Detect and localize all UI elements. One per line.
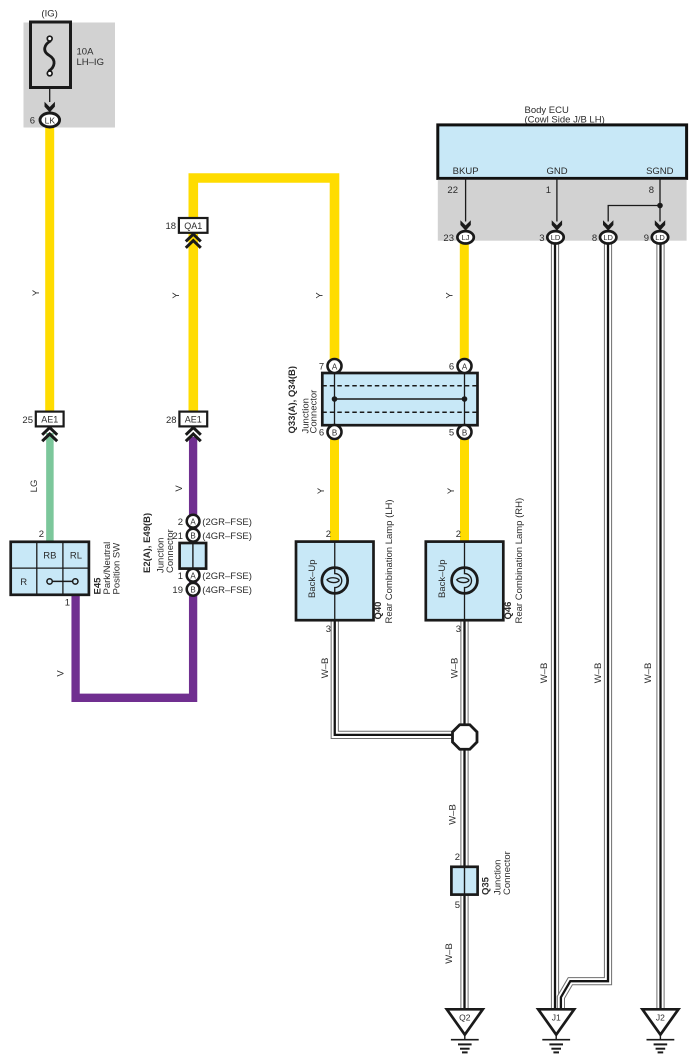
svg-text:SGND: SGND: [646, 166, 674, 177]
ground triangle Q2: [447, 1009, 483, 1034]
ground triangle J2: [642, 1009, 678, 1034]
svg-text:Connector: Connector: [502, 851, 513, 895]
switch contact symbol: [47, 579, 78, 584]
arrow down at fuse output: [45, 102, 55, 113]
svg-text:5: 5: [455, 900, 460, 911]
wire Y junction 6B to Q40 lamp: [330, 432, 339, 543]
svg-text:7: 7: [319, 362, 324, 373]
lamp Q40 Back-Up body: [296, 542, 374, 621]
label Q33(A), Q34(B) Junction Connector: [287, 366, 320, 434]
Body ECU gray connector area: [438, 180, 687, 241]
arrow down SGND branch 8: [603, 220, 613, 231]
svg-text:Q35: Q35: [481, 876, 492, 895]
wire W-B from Q46 pin3 through octagon, Q35 to ground Q2: [460, 619, 468, 1010]
svg-text:Position SW: Position SW: [112, 543, 123, 595]
svg-text:(2GR–FSE): (2GR–FSE): [202, 571, 252, 582]
pin 5 B: [458, 425, 472, 439]
svg-text:W–B: W–B: [320, 658, 331, 679]
wire Y from fuse LK to connector AE1 pin25: [45, 126, 54, 413]
bulb Q46: [452, 568, 478, 594]
svg-text:RL: RL: [70, 551, 82, 562]
wire LG from AE1 to E45 switch: [46, 433, 54, 543]
svg-text:RB: RB: [43, 551, 56, 562]
svg-text:LG: LG: [29, 480, 40, 493]
svg-text:BKUP: BKUP: [453, 166, 479, 177]
svg-text:3: 3: [326, 624, 331, 635]
svg-text:2: 2: [456, 529, 461, 540]
svg-text:10A: 10A: [77, 47, 95, 58]
svg-text:1: 1: [546, 185, 551, 196]
wire W-B from Q40 pin3 to octagon joint: [335, 619, 456, 735]
svg-text:22: 22: [447, 185, 458, 196]
svg-text:6: 6: [449, 362, 454, 373]
svg-text:2: 2: [39, 529, 44, 540]
label Q46 Rear Combination Lamp (RH): [503, 498, 525, 624]
pin 8 lead SGND with branch: [608, 178, 660, 221]
connector 25 AE1: [36, 412, 64, 427]
svg-text:23: 23: [443, 233, 454, 244]
svg-text:Rear Combination Lamp (RH): Rear Combination Lamp (RH): [514, 498, 525, 624]
svg-text:B: B: [190, 586, 195, 595]
ground symbol under J1: [542, 1035, 570, 1053]
svg-text:Q2: Q2: [459, 1012, 471, 1022]
svg-text:(2GR–FSE): (2GR–FSE): [202, 517, 252, 528]
junction connector E2(A) E49(B) pins 1A 19B: [172, 569, 252, 596]
svg-text:QA1: QA1: [184, 221, 202, 231]
connector 18 QA1: [179, 218, 208, 233]
wire from fuse to output arrow: [49, 88, 51, 103]
svg-text:LH–IG: LH–IG: [77, 57, 104, 68]
svg-text:B: B: [190, 532, 195, 541]
arrow down SGND 9: [655, 220, 665, 231]
svg-text:V: V: [174, 485, 185, 492]
ground triangle J1: [538, 1009, 574, 1034]
svg-text:Y: Y: [171, 292, 182, 299]
arrow down BKUP: [460, 220, 470, 231]
label E45 Park/Neutral Position SW: [93, 542, 123, 595]
svg-text:LD: LD: [551, 233, 561, 242]
svg-text:3: 3: [539, 233, 544, 244]
svg-text:B: B: [332, 428, 337, 437]
svg-text:6: 6: [30, 116, 35, 127]
svg-text:J2: J2: [656, 1012, 665, 1022]
W-B harness wire group: [335, 242, 661, 1010]
svg-text:LJ: LJ: [462, 233, 470, 242]
svg-text:Y: Y: [31, 289, 42, 296]
junction connector E2(A) E49(B) pins 2A 21B: [172, 515, 252, 542]
svg-text:(4GR–FSE): (4GR–FSE): [202, 531, 252, 542]
junction connector E2/E49 body: [180, 543, 207, 569]
wire V from E45 pin1 to junction connector E2 and up to AE1 pin 28: [76, 437, 194, 698]
svg-text:W–B: W–B: [539, 663, 550, 684]
terminal oval LK pin 6: [40, 113, 60, 127]
svg-text:25: 25: [22, 415, 33, 426]
junction connector Q33(A) Q34(B) body: [322, 367, 477, 431]
wire Y colB/top-run from QA1 down-through to junction connector pin 7A: [193, 178, 334, 413]
bulb Q40: [322, 568, 348, 594]
svg-text:Rear Combination Lamp (LH): Rear Combination Lamp (LH): [384, 499, 395, 623]
svg-text:2: 2: [178, 517, 183, 528]
fuse block gray background: [24, 23, 116, 128]
svg-text:19: 19: [172, 585, 183, 596]
svg-text:8: 8: [592, 233, 597, 244]
ground symbol under Q2: [451, 1035, 479, 1053]
svg-text:Back–Up: Back–Up: [437, 559, 448, 598]
svg-text:A: A: [190, 572, 196, 581]
svg-text:AE1: AE1: [41, 415, 58, 425]
svg-text:(IG): (IG): [41, 9, 57, 20]
svg-text:8: 8: [649, 185, 654, 196]
svg-text:1: 1: [178, 571, 183, 582]
svg-text:Connector: Connector: [309, 390, 320, 434]
svg-text:GND: GND: [546, 166, 567, 177]
pin 22 lead: [465, 178, 467, 221]
svg-text:R: R: [20, 577, 27, 588]
label Q35 Junction Connector: [481, 851, 514, 895]
svg-text:A: A: [332, 362, 338, 371]
svg-text:Y: Y: [446, 487, 457, 494]
svg-text:W–B: W–B: [643, 663, 654, 684]
wire W-B from Body ECU GND 3 LD to ground J1: [551, 242, 559, 1010]
svg-text:18: 18: [166, 221, 177, 232]
svg-text:1: 1: [65, 598, 70, 609]
wire Y junction 5B to Q46 lamp: [460, 432, 469, 543]
svg-text:Back–Up: Back–Up: [307, 559, 318, 598]
svg-text:B: B: [462, 428, 467, 437]
svg-text:(4GR–FSE): (4GR–FSE): [202, 585, 252, 596]
terminal oval 8 LD: [600, 231, 616, 243]
svg-text:Y: Y: [316, 487, 327, 494]
Body ECU box: [438, 125, 687, 178]
svg-text:LD: LD: [603, 233, 613, 242]
svg-text:5: 5: [449, 428, 454, 439]
label Q40 Rear Combination Lamp (LH): [373, 499, 395, 623]
svg-text:E2(A), E49(B): E2(A), E49(B): [142, 513, 153, 573]
chevron under 18 QA1: [186, 234, 201, 248]
svg-text:Q33(A), Q34(B): Q33(A), Q34(B): [287, 366, 298, 434]
switch E45 Park/Neutral Position SW: [11, 542, 89, 595]
joint octagon: [453, 725, 478, 750]
wire W-B from Body ECU SGND 8 LD to ground J1 with jog: [561, 242, 608, 1010]
svg-text:W–B: W–B: [448, 804, 459, 825]
svg-text:3: 3: [456, 624, 461, 635]
svg-text:Q40: Q40: [373, 602, 384, 620]
label E2(A), E49(B) Junction Connector: [142, 513, 176, 573]
fuse element symbol: [45, 36, 54, 76]
terminal oval 23 LJ: [457, 231, 473, 243]
svg-text:2: 2: [326, 529, 331, 540]
svg-text:28: 28: [166, 415, 177, 426]
svg-text:2: 2: [455, 852, 460, 863]
terminal oval 3 LD: [547, 231, 563, 243]
svg-text:Connector: Connector: [165, 529, 176, 573]
svg-text:Q46: Q46: [503, 602, 514, 620]
svg-text:9: 9: [644, 233, 649, 244]
ground symbol under J2: [647, 1035, 675, 1053]
chevron under 28 AE1: [186, 428, 201, 442]
junction connector Q35 body: [451, 867, 477, 895]
svg-text:A: A: [190, 518, 196, 527]
chevron under 25 AE1: [42, 428, 57, 442]
terminal oval 9 LD: [652, 231, 668, 243]
svg-text:Y: Y: [315, 292, 326, 299]
svg-text:Y: Y: [445, 292, 456, 299]
wire Y from Body ECU pin 23 LJ to junction connector pin 6A: [460, 242, 469, 366]
connector 28 AE1: [179, 412, 207, 427]
pin 6 A: [458, 359, 472, 373]
junction dot SGND branch: [657, 203, 663, 209]
svg-text:V: V: [56, 670, 67, 677]
lamp Q46 Back-Up body: [426, 542, 504, 621]
svg-text:6: 6: [319, 428, 324, 439]
svg-text:AE1: AE1: [185, 415, 202, 425]
wire W-B from Body ECU SGND 9 LD to ground J2: [656, 242, 664, 1010]
svg-text:A: A: [462, 362, 468, 371]
arrow down GND: [552, 220, 562, 231]
fuse 10A LH-IG body: [31, 22, 71, 88]
svg-text:LK: LK: [45, 115, 56, 125]
pin 6 B: [328, 425, 342, 439]
pin 1 lead GND: [556, 178, 558, 221]
svg-text:LD: LD: [655, 233, 665, 242]
svg-text:W–B: W–B: [593, 663, 604, 684]
svg-text:W–B: W–B: [444, 943, 455, 964]
svg-text:W–B: W–B: [450, 658, 461, 679]
svg-text:J1: J1: [552, 1012, 561, 1022]
pin 7 A: [328, 359, 342, 373]
